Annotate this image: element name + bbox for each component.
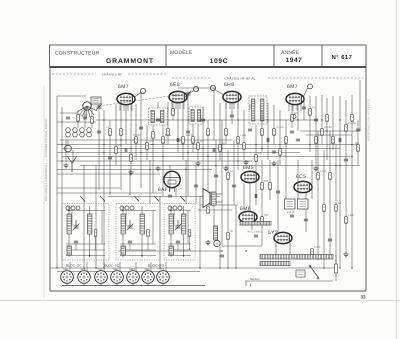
junction (56, 267, 57, 268)
mains cord wires (245, 281, 247, 286)
tube 6M7 (117, 93, 135, 104)
wire (288, 104, 290, 111)
wire (277, 160, 279, 232)
junction (61, 144, 62, 145)
wire (127, 104, 129, 111)
wire (84, 110, 86, 128)
wire (207, 120, 209, 196)
wire (157, 102, 159, 108)
capacitor (276, 191, 280, 193)
resistor (243, 143, 246, 150)
wire (317, 131, 319, 260)
wire (129, 170, 131, 195)
capacitor (254, 235, 258, 237)
wire (115, 104, 117, 165)
wire (140, 93, 142, 188)
wire (62, 156, 350, 158)
junction (237, 160, 238, 161)
capacitor (304, 219, 308, 221)
wire (95, 165, 97, 268)
svg-text:GRAMMONT: GRAMMONT (106, 58, 154, 65)
tube 6M7 (286, 93, 304, 104)
resistor (115, 147, 118, 154)
svg-text:6AF7: 6AF7 (129, 268, 136, 271)
resistor (345, 125, 348, 132)
svg-text:N° 617: N° 617 (332, 54, 353, 61)
aerial coil L4 (87, 128, 92, 133)
svg-text:200: 200 (118, 144, 123, 147)
motor boost circle (214, 240, 220, 246)
wire (62, 148, 340, 150)
svg-text:0,1: 0,1 (106, 126, 110, 129)
wire (167, 102, 169, 144)
resistor (188, 230, 191, 237)
ganged tuning dashed shaft (99, 94, 184, 106)
resistor (130, 155, 133, 162)
resistor (255, 155, 258, 162)
capacitor (356, 129, 360, 131)
junction (351, 144, 352, 145)
svg-text:0,1: 0,1 (200, 140, 204, 143)
resistor (167, 129, 170, 136)
svg-text:BLOC PO: BLOC PO (104, 264, 120, 268)
grid cap 6H8 (210, 85, 215, 90)
resistor (357, 145, 360, 152)
grid cap 6E8 (193, 86, 198, 91)
wire (267, 103, 269, 160)
wire (216, 201, 222, 203)
BLOC PO tuning coil B (140, 214, 144, 234)
resistor (326, 115, 329, 122)
resistor (285, 137, 288, 144)
resistor (311, 249, 314, 256)
wire (216, 193, 222, 195)
phono jack (65, 145, 72, 152)
variable capacitor (185, 91, 191, 98)
wire (291, 105, 293, 128)
resistor (309, 109, 312, 116)
junction (66, 285, 67, 286)
wire (165, 262, 167, 272)
wire (57, 169, 212, 171)
junction (215, 165, 216, 166)
capacitor (314, 119, 318, 121)
wire (255, 125, 257, 171)
resistor (261, 183, 264, 190)
resistor (207, 129, 210, 136)
wire (339, 96, 341, 268)
BLOC GO extra wiring (168, 210, 191, 257)
wire (83, 165, 85, 268)
BLOC OC trimmer A (73, 220, 80, 231)
wire (249, 183, 251, 211)
BLOC GO top padder row (168, 206, 182, 210)
tube 6AF7 magic eye (164, 171, 180, 192)
wire (237, 103, 239, 170)
svg-text:6H8: 6H8 (98, 268, 103, 271)
wire (175, 188, 177, 196)
wire (162, 283, 164, 285)
header divider modele (165, 45, 167, 67)
wire (300, 130, 360, 132)
svg-text:0,1: 0,1 (230, 170, 234, 173)
svg-text:6E8: 6E8 (170, 82, 180, 88)
svg-text:5.000: 5.000 (165, 134, 172, 137)
tube socket 6M7 underside (111, 271, 124, 284)
resistor (237, 137, 240, 144)
wire (135, 262, 137, 272)
wire (225, 103, 227, 144)
junction (237, 119, 238, 120)
resistor (120, 129, 123, 136)
wire (345, 100, 347, 252)
capacitor (213, 148, 215, 152)
wire (57, 144, 358, 146)
wire (261, 160, 263, 246)
wire (66, 283, 68, 285)
wire (61, 107, 63, 268)
wire (57, 192, 162, 194)
wire (152, 125, 154, 193)
junction (339, 165, 340, 166)
wire (359, 80, 361, 131)
svg-text:REPRODUCTION INTERDITE: REPRODUCTION INTERDITE (368, 99, 371, 141)
wire (86, 262, 88, 272)
wire (222, 245, 262, 247)
svg-text:40.000: 40.000 (324, 126, 332, 129)
output transformer (212, 192, 217, 205)
switch contact arrow (180, 196, 185, 202)
wire (300, 104, 302, 111)
svg-text:25.000: 25.000 (133, 134, 141, 137)
resistor (321, 129, 324, 136)
junction (339, 119, 340, 120)
svg-text:CHÂSSIS HF BF AL: CHÂSSIS HF BF AL (224, 76, 255, 80)
junction (120, 139, 121, 140)
resistor (227, 233, 230, 240)
BLOC OC tuning coil A (67, 214, 71, 234)
coil pack BLOC GO enclosure (164, 204, 195, 261)
5Y3 filament leads (275, 243, 277, 255)
capacitor (214, 175, 218, 177)
antenna symbol (67, 156, 77, 172)
svg-text:6M7: 6M7 (63, 268, 69, 271)
resistor (152, 132, 155, 139)
svg-text:m: m (216, 242, 219, 246)
junction (326, 130, 327, 131)
wire (357, 120, 359, 165)
wire (261, 110, 263, 152)
capacitor (290, 215, 294, 217)
wire (297, 160, 299, 199)
wire (146, 125, 148, 160)
wire (233, 140, 235, 205)
mains switch (309, 265, 319, 279)
coil pack BLOC OC enclosure (62, 204, 109, 261)
wire (147, 283, 149, 285)
resistor (94, 230, 97, 237)
capacitor (168, 195, 172, 197)
resistor (182, 137, 185, 144)
wirewound resistor (240, 222, 271, 226)
wire (56, 170, 58, 268)
BLOC PO tuning coil A (121, 214, 125, 234)
wire (200, 204, 238, 206)
BLOC OC extra wiring (66, 210, 105, 257)
junction (83, 267, 84, 268)
wire (57, 152, 300, 154)
junction (61, 160, 62, 161)
ground (271, 161, 276, 166)
electrolytic 2x8uF block A (285, 199, 296, 209)
wire (292, 104, 294, 111)
BLOC PO top padder row (120, 206, 134, 210)
IF transformer T1 (149, 108, 168, 125)
tube 6H8 (223, 91, 241, 102)
wire (273, 105, 275, 144)
junction (116, 285, 117, 286)
junction (245, 250, 246, 251)
svg-text:500: 500 (264, 180, 269, 183)
chassis HF boundary line (52, 73, 96, 75)
wire (285, 120, 287, 160)
junction (202, 148, 203, 149)
switch contact arrow (134, 196, 139, 202)
aerial coil L3 (80, 128, 85, 133)
resistor (135, 137, 138, 144)
BLOC OC secondary coil (67, 246, 71, 255)
power transformer primary (260, 255, 333, 260)
svg-text:DOCUMENT GRAMMONT — SCHÉMATHÈQ: DOCUMENT GRAMMONT — SCHÉMATHÈQUE RADIO (44, 118, 48, 201)
svg-text:6M6: 6M6 (240, 206, 251, 212)
wire (213, 88, 215, 140)
capacitor (176, 241, 180, 243)
junction (219, 267, 220, 268)
wire (109, 120, 111, 195)
resistor (329, 173, 332, 180)
wire (304, 88, 308, 95)
wire (175, 102, 177, 109)
tube socket 6M6 underside (142, 271, 155, 284)
capacitor (66, 117, 70, 119)
wire (91, 108, 93, 128)
wire (255, 171, 257, 205)
coil pack BLOC PO enclosure (116, 204, 160, 261)
wire (178, 87, 215, 89)
resistor (335, 205, 338, 212)
junction (147, 285, 148, 286)
resistor (291, 115, 294, 122)
wire (83, 283, 85, 285)
wire (123, 104, 125, 111)
junction (103, 152, 104, 153)
aerial coil L2 (73, 128, 78, 133)
wire (131, 104, 133, 111)
junction (130, 148, 131, 149)
wire (225, 102, 227, 109)
wire (57, 95, 86, 97)
wire (326, 98, 328, 160)
svg-text:6E8: 6E8 (81, 268, 86, 271)
wire (235, 205, 237, 268)
resistor (207, 207, 210, 214)
capacitor (232, 185, 236, 187)
wire (332, 96, 334, 150)
junction (103, 267, 104, 268)
junction (339, 267, 340, 268)
header divider numero (321, 45, 323, 67)
wire (305, 193, 307, 232)
wire (198, 209, 232, 211)
electrolytic 2x8uF block B (298, 199, 309, 209)
IF transformer T3 (249, 96, 267, 124)
wire (285, 160, 287, 199)
junction (159, 267, 160, 268)
junction (149, 169, 150, 170)
capacitor (177, 138, 179, 142)
BLOC PO secondary coil (121, 246, 125, 255)
wire (269, 160, 271, 200)
wire (335, 255, 337, 264)
junction (235, 267, 236, 268)
wire (335, 273, 337, 281)
excitation field coil (214, 226, 218, 240)
junction (279, 144, 280, 145)
svg-text:20.000: 20.000 (276, 126, 284, 129)
resistor (279, 149, 282, 156)
resistor (317, 173, 320, 180)
svg-text:6H8: 6H8 (224, 82, 234, 88)
junction (221, 144, 222, 145)
svg-text:0,5: 0,5 (258, 152, 262, 155)
ground (223, 166, 228, 171)
wire (69, 262, 71, 272)
resistor (273, 129, 276, 136)
svg-text:50.000: 50.000 (80, 114, 88, 117)
BLOC PO extra wiring (120, 210, 156, 257)
wire (351, 95, 353, 268)
resistor (227, 173, 230, 180)
wire (98, 104, 100, 190)
junction (221, 250, 222, 251)
wire (215, 140, 217, 192)
resistor (269, 183, 272, 190)
junction (187, 119, 188, 120)
resistor (146, 143, 149, 150)
svg-text:6AF7: 6AF7 (158, 187, 171, 193)
junction (351, 156, 352, 157)
junction (152, 144, 153, 145)
wire (132, 283, 134, 285)
capacitor (255, 194, 257, 198)
loudspeaker (203, 189, 210, 208)
wire (231, 103, 233, 124)
wire (179, 102, 181, 109)
wire (108, 196, 220, 198)
scan edge shade left (43, 86, 45, 299)
wire (303, 95, 305, 120)
junction (132, 285, 133, 286)
svg-text:1 MΩ: 1 MΩ (240, 134, 246, 137)
wire (159, 196, 161, 268)
wire (60, 139, 232, 141)
wire (243, 110, 245, 160)
header divider annee (273, 45, 275, 67)
capacitor (339, 138, 341, 142)
capacitor (201, 119, 205, 121)
resistor (192, 137, 195, 144)
svg-text:465 Kc: 465 Kc (186, 134, 195, 137)
wire (103, 262, 105, 272)
switch contact box (91, 97, 101, 104)
capacitor (194, 185, 198, 187)
resistor (77, 115, 80, 122)
ground (205, 240, 210, 245)
BLOC OC tuning coil B (88, 214, 92, 234)
chassis HF BF AL boundary line (172, 77, 212, 79)
capacitor (156, 119, 160, 121)
BLOC GO tuning coil B (182, 214, 186, 234)
wire (77, 110, 79, 128)
capacitor (344, 159, 348, 161)
resistor (332, 137, 335, 144)
wire (192, 124, 194, 152)
wire (227, 210, 229, 268)
capacitor (328, 239, 332, 241)
wire (116, 283, 118, 285)
IF transformer T2 (189, 107, 203, 124)
wire (306, 134, 352, 136)
ground (63, 163, 68, 168)
wire (321, 95, 323, 144)
svg-text:0,1: 0,1 (312, 106, 316, 109)
wire (195, 165, 197, 204)
metallisation circle (292, 115, 296, 119)
capacitor (186, 131, 190, 133)
wire (80, 165, 360, 167)
wire (249, 104, 251, 110)
junction (100, 285, 101, 286)
grid cap 6M7 second (308, 84, 313, 89)
resistor (172, 109, 175, 116)
grid cap 6M7 (140, 88, 145, 93)
junction (103, 119, 104, 120)
capacitor (139, 127, 143, 129)
svg-text:2×8 µF: 2×8 µF (287, 211, 296, 214)
wire (243, 183, 245, 210)
dial lamp wiring (62, 285, 205, 287)
junction (103, 144, 104, 145)
wire (183, 102, 185, 109)
wire (315, 96, 317, 165)
wire (229, 102, 231, 109)
junction (261, 148, 262, 149)
capacitor (97, 131, 101, 133)
rotary switch wafer (77, 102, 97, 118)
resistor (315, 137, 318, 144)
capacitor (267, 138, 269, 142)
svg-text:ANNÉE: ANNÉE (281, 49, 300, 56)
tube socket 6AF7 underside (127, 271, 140, 284)
scan edge line right (396, 0, 398, 339)
wire (60, 112, 78, 114)
junction (255, 144, 256, 145)
BLOC GO tuning coil A (169, 214, 173, 234)
voltage selector (296, 270, 305, 277)
junction (309, 144, 310, 145)
wire (185, 160, 187, 204)
wire (215, 90, 224, 95)
